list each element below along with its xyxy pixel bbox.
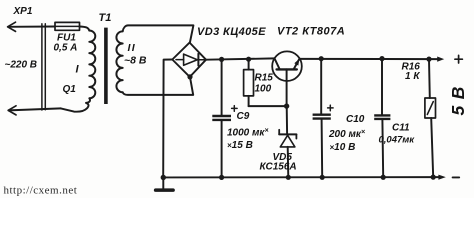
wire secondary top lead to bridge AC1	[123, 25, 194, 42]
top rail right segment	[299, 58, 437, 60]
svg-text:С9: С9	[237, 111, 250, 122]
C9 negative lead	[221, 121, 223, 177]
minus sign output	[453, 176, 460, 178]
svg-text:~220 В: ~220 В	[5, 60, 38, 71]
zener VD5	[286, 106, 288, 134]
wire fuse to primary	[80, 27, 90, 31]
svg-text:Т1: Т1	[99, 12, 112, 24]
bridge diode symbol	[176, 59, 184, 61]
plug XP1 double line	[42, 24, 45, 110]
bridge rectifier VD3 diamond	[172, 43, 206, 77]
capacitor C10 plates	[313, 113, 331, 115]
C10 positive lead	[320, 59, 322, 114]
svg-text:I: I	[76, 64, 80, 76]
svg-text:VD3 КЦ405Е: VD3 КЦ405Е	[197, 26, 266, 38]
svg-text:×15 В: ×15 В	[227, 140, 253, 151]
svg-text:5 В: 5 В	[448, 86, 468, 116]
svg-text:II: II	[128, 42, 136, 54]
top rail left segment	[206, 58, 274, 59]
wire secondary bottom lead to bridge AC2	[123, 77, 194, 95]
svg-text:КС156А: КС156А	[260, 162, 297, 173]
transformer T1 secondary winding II	[116, 31, 122, 92]
wire bridge minus (left corner) down to common rail	[163, 60, 172, 178]
output minus arrow	[438, 175, 445, 180]
ground	[162, 177, 164, 188]
svg-text:1 К: 1 К	[405, 71, 420, 82]
VT2 base lead	[286, 69, 288, 106]
svg-text:~8 В: ~8 В	[124, 55, 147, 67]
svg-text:R15: R15	[255, 73, 274, 84]
svg-text:Q1: Q1	[63, 84, 77, 95]
svg-text:VT2 КТ807А: VT2 КТ807А	[277, 25, 345, 37]
C10 plus sign	[328, 105, 334, 111]
transistor VT2	[272, 51, 302, 81]
capacitor C9 plates	[212, 115, 231, 117]
wire mains top	[8, 26, 55, 28]
svg-text:1000 мк×: 1000 мк×	[227, 128, 269, 139]
plus sign output	[455, 55, 463, 63]
C10 negative lead	[321, 120, 324, 178]
svg-text:0,047мк: 0,047мк	[379, 135, 416, 146]
transformer T1 primary winding I	[89, 31, 95, 99]
svg-text:ХР1: ХР1	[13, 6, 33, 17]
fuse FU1	[55, 22, 80, 30]
switch Q1 blade and lead	[61, 98, 90, 111]
connector XP1 bottom pin arrow	[8, 106, 16, 115]
C9 plus sign	[232, 106, 238, 112]
svg-text:http://cxem.net: http://cxem.net	[4, 185, 78, 197]
svg-text:×10 В: ×10 В	[330, 142, 356, 153]
svg-text:С10: С10	[346, 114, 365, 125]
svg-text:0,5 А: 0,5 А	[54, 43, 78, 54]
svg-text:100: 100	[255, 84, 272, 95]
connector XP1 top pin arrow	[8, 22, 16, 31]
bottom common rail	[163, 176, 439, 178]
resistor R16	[428, 59, 431, 98]
output plus arrow	[437, 57, 444, 62]
wire mains bottom	[9, 108, 61, 110]
resistor R15	[248, 59, 250, 70]
wire R15 to base node	[249, 105, 287, 107]
capacitor C11	[381, 59, 383, 115]
transformer core	[104, 28, 108, 104]
C9 positive lead	[221, 59, 223, 114]
svg-text:С11: С11	[392, 123, 410, 134]
svg-text:200 мк×: 200 мк×	[328, 129, 365, 140]
